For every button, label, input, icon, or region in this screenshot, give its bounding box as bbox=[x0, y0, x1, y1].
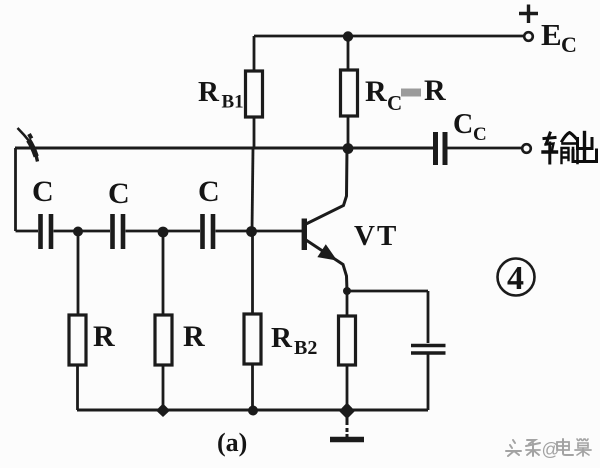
svg-text:R: R bbox=[198, 76, 220, 108]
wire C3 to base bbox=[216, 230, 303, 233]
label Cc bbox=[453, 109, 487, 145]
power plus sign bbox=[519, 5, 538, 24]
wire Cc to output terminal bbox=[448, 147, 523, 150]
wire RE top lead bbox=[346, 291, 349, 316]
capacitor C3 plates bbox=[203, 214, 214, 249]
node junction RB2 / rail bbox=[248, 406, 258, 416]
transistor emitter arrowhead bbox=[319, 246, 336, 260]
wire R2 bottom lead bbox=[162, 365, 165, 410]
capacitor C1 plates bbox=[41, 214, 52, 249]
node junction emitter branch / rail bbox=[339, 403, 355, 420]
capacitor CE bypass plates bbox=[411, 346, 446, 354]
svg-text:(a): (a) bbox=[217, 428, 247, 457]
wire emitter node to bypass branch bbox=[347, 290, 428, 293]
wire R2 top lead (drawn above) bbox=[162, 237, 165, 315]
wire RC bottom lead bbox=[347, 116, 350, 148]
node junction top rail / RC bbox=[343, 31, 353, 41]
label RB1 bbox=[198, 76, 244, 113]
wire RB2 bottom lead bbox=[251, 364, 254, 410]
svg-text:R: R bbox=[271, 322, 293, 354]
label RB2 bbox=[271, 322, 317, 359]
wire RB1 top lead bbox=[253, 36, 256, 71]
transistor VT base bar bbox=[302, 219, 307, 251]
svg-text:C: C bbox=[32, 175, 54, 208]
transistor VT collector stroke bbox=[306, 148, 347, 224]
node junction emitter bbox=[343, 287, 351, 295]
wire RB1 bottom lead bbox=[253, 117, 256, 148]
电 char bbox=[557, 439, 573, 455]
node junction C2/R2 bbox=[158, 227, 169, 238]
svg-text:B2: B2 bbox=[294, 337, 317, 359]
resistor RB1 bbox=[246, 71, 263, 117]
svg-text:R: R bbox=[93, 320, 115, 353]
svg-text:C: C bbox=[473, 124, 487, 145]
wire RC top lead bbox=[347, 36, 350, 70]
出 char bbox=[573, 133, 597, 162]
annotation slash mark on left wire bbox=[18, 128, 30, 142]
node junction base / RB divider bbox=[246, 226, 257, 237]
label RC = R bbox=[365, 74, 446, 115]
terminal Ec circle bbox=[524, 32, 533, 41]
svg-text:C: C bbox=[198, 175, 220, 208]
node junction R2 / rail bbox=[156, 404, 170, 418]
svg-text:B1: B1 bbox=[222, 92, 244, 113]
capacitor C2 plates bbox=[113, 214, 124, 249]
wire bottom ground rail bbox=[77, 408, 428, 411]
wire RE bottom lead bbox=[346, 365, 349, 410]
capacitor Cc plates bbox=[436, 132, 446, 165]
ground lead bbox=[346, 410, 349, 438]
wire RB1 lead down to base node bbox=[252, 148, 253, 231]
resistor RE (emitter) bbox=[339, 316, 356, 365]
svg-text:R: R bbox=[183, 320, 205, 353]
wire base node down to RB2 bbox=[251, 231, 254, 314]
transistor VT emitter stroke with arrow bbox=[306, 240, 347, 291]
头 char bbox=[506, 440, 521, 456]
wire top rail Ec bbox=[254, 35, 524, 38]
wire C1 to C2 bbox=[54, 230, 111, 233]
wire bypass branch down bbox=[427, 291, 430, 343]
resistor RC bbox=[341, 70, 358, 116]
条 char bbox=[526, 440, 540, 456]
svg-text:4: 4 bbox=[507, 260, 524, 297]
resistor R2 bbox=[155, 315, 172, 365]
svg-text:C: C bbox=[387, 91, 402, 115]
svg-text:VT: VT bbox=[354, 220, 398, 252]
label Ec bbox=[541, 17, 577, 57]
annotation circled 4 bbox=[498, 259, 535, 298]
wire collector feedback rail bbox=[15, 146, 433, 149]
node junction rail / collector bbox=[343, 143, 354, 154]
node junction C1/R1 bbox=[73, 227, 83, 237]
svg-text:R: R bbox=[365, 75, 387, 108]
wire bypass cap to ground rail bbox=[427, 355, 430, 411]
ground symbol bar bbox=[330, 437, 364, 443]
resistor RB2 bbox=[244, 314, 261, 364]
wire network chain baseline bbox=[16, 230, 39, 233]
wire R1 top lead bbox=[77, 231, 80, 315]
wire left vertical of phase-shift network bbox=[14, 148, 17, 231]
svg-text:R: R bbox=[424, 74, 446, 107]
巢 char bbox=[575, 439, 591, 456]
watermark 头条@电巢 bbox=[506, 439, 591, 460]
label output 输出 bbox=[543, 133, 597, 164]
terminal output circle bbox=[522, 144, 531, 153]
wire R1 bottom lead bbox=[76, 365, 79, 410]
wire C2 to C3 bbox=[126, 230, 201, 233]
svg-text:E: E bbox=[541, 17, 562, 52]
svg-text:C: C bbox=[108, 177, 130, 210]
svg-text:C: C bbox=[453, 109, 473, 140]
svg-text:C: C bbox=[561, 32, 577, 57]
输 char bbox=[543, 133, 578, 164]
resistor R1 bbox=[69, 315, 86, 365]
